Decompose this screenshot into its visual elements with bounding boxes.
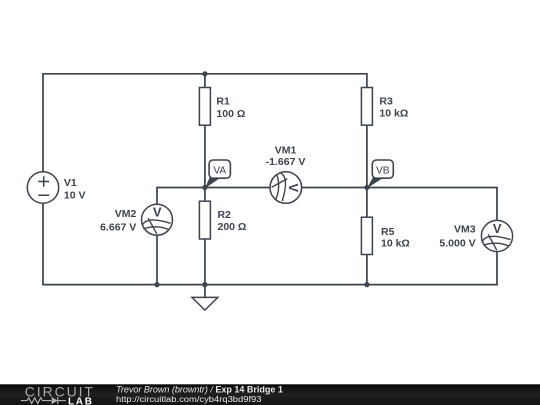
wire R2 bottom stub — [204, 239, 206, 285]
junction node A — [202, 185, 207, 190]
svg-text:VA: VA — [213, 166, 226, 177]
wire VM1 to node B — [302, 187, 367, 189]
svg-text:VB: VB — [376, 166, 390, 177]
wire R5 bottom stub — [366, 255, 368, 285]
svg-text:200 Ω: 200 Ω — [218, 221, 247, 233]
voltage source V1 — [27, 172, 85, 203]
ground — [192, 297, 218, 310]
CircuitLab logo — [21, 383, 95, 405]
svg-text:6.667 V: 6.667 V — [100, 221, 136, 233]
wire R1 top stub — [204, 74, 206, 88]
wire node B to VM3 — [367, 188, 497, 221]
junction at R1 top — [202, 71, 207, 76]
svg-text:10 kΩ: 10 kΩ — [379, 108, 408, 120]
svg-text:R5: R5 — [381, 226, 395, 238]
svg-text:-1.667 V: -1.667 V — [266, 156, 306, 168]
svg-text:VM3: VM3 — [454, 224, 476, 236]
svg-text:LAB: LAB — [68, 397, 94, 405]
wire bottom rail — [43, 203, 497, 284]
footer bar — [0, 384, 540, 405]
svg-text:VM1: VM1 — [275, 144, 297, 156]
footer text — [116, 385, 283, 405]
junction R5 bottom — [364, 282, 369, 287]
wire top rail — [43, 74, 367, 172]
wire VM2 bottom stub — [156, 235, 158, 284]
svg-text:Trevor Brown (browntr) / Exp 1: Trevor Brown (browntr) / Exp 14 Bridge 1 — [116, 385, 283, 395]
junction ground — [202, 282, 207, 287]
node VA — [205, 160, 230, 188]
wire R2 top stub — [204, 188, 206, 202]
voltmeter VM1 — [266, 144, 306, 203]
svg-text:R2: R2 — [218, 209, 232, 221]
svg-text:R3: R3 — [379, 95, 393, 107]
wire R5 top stub — [366, 188, 368, 218]
wire R3 bottom to node B — [366, 125, 368, 187]
wire R1 bottom to node A — [204, 125, 206, 187]
svg-text:VM2: VM2 — [115, 208, 137, 220]
svg-text:V1: V1 — [64, 177, 77, 189]
svg-text:R1: R1 — [216, 96, 230, 108]
wire ground stub — [204, 285, 206, 298]
junction VM2 bottom — [154, 282, 159, 287]
wire VM2 top to node A — [157, 188, 205, 205]
svg-text:10 kΩ: 10 kΩ — [381, 238, 410, 250]
resistor R1 — [199, 88, 245, 126]
resistor R5 — [361, 217, 409, 254]
svg-text:100 Ω: 100 Ω — [216, 108, 245, 120]
svg-text:10 V: 10 V — [64, 190, 86, 202]
wire node A to VM1 — [205, 187, 270, 189]
voltmeter VM2 — [100, 204, 172, 235]
junction node B — [364, 185, 369, 190]
svg-text:http://circuitlab.com/cyb4rq3b: http://circuitlab.com/cyb4rq3bd9f93 — [116, 394, 262, 404]
resistor R2 — [199, 201, 246, 239]
voltmeter VM3 — [439, 220, 512, 251]
svg-text:5.000 V: 5.000 V — [439, 237, 475, 249]
resistor R3 — [361, 88, 408, 126]
node VB — [367, 160, 393, 188]
